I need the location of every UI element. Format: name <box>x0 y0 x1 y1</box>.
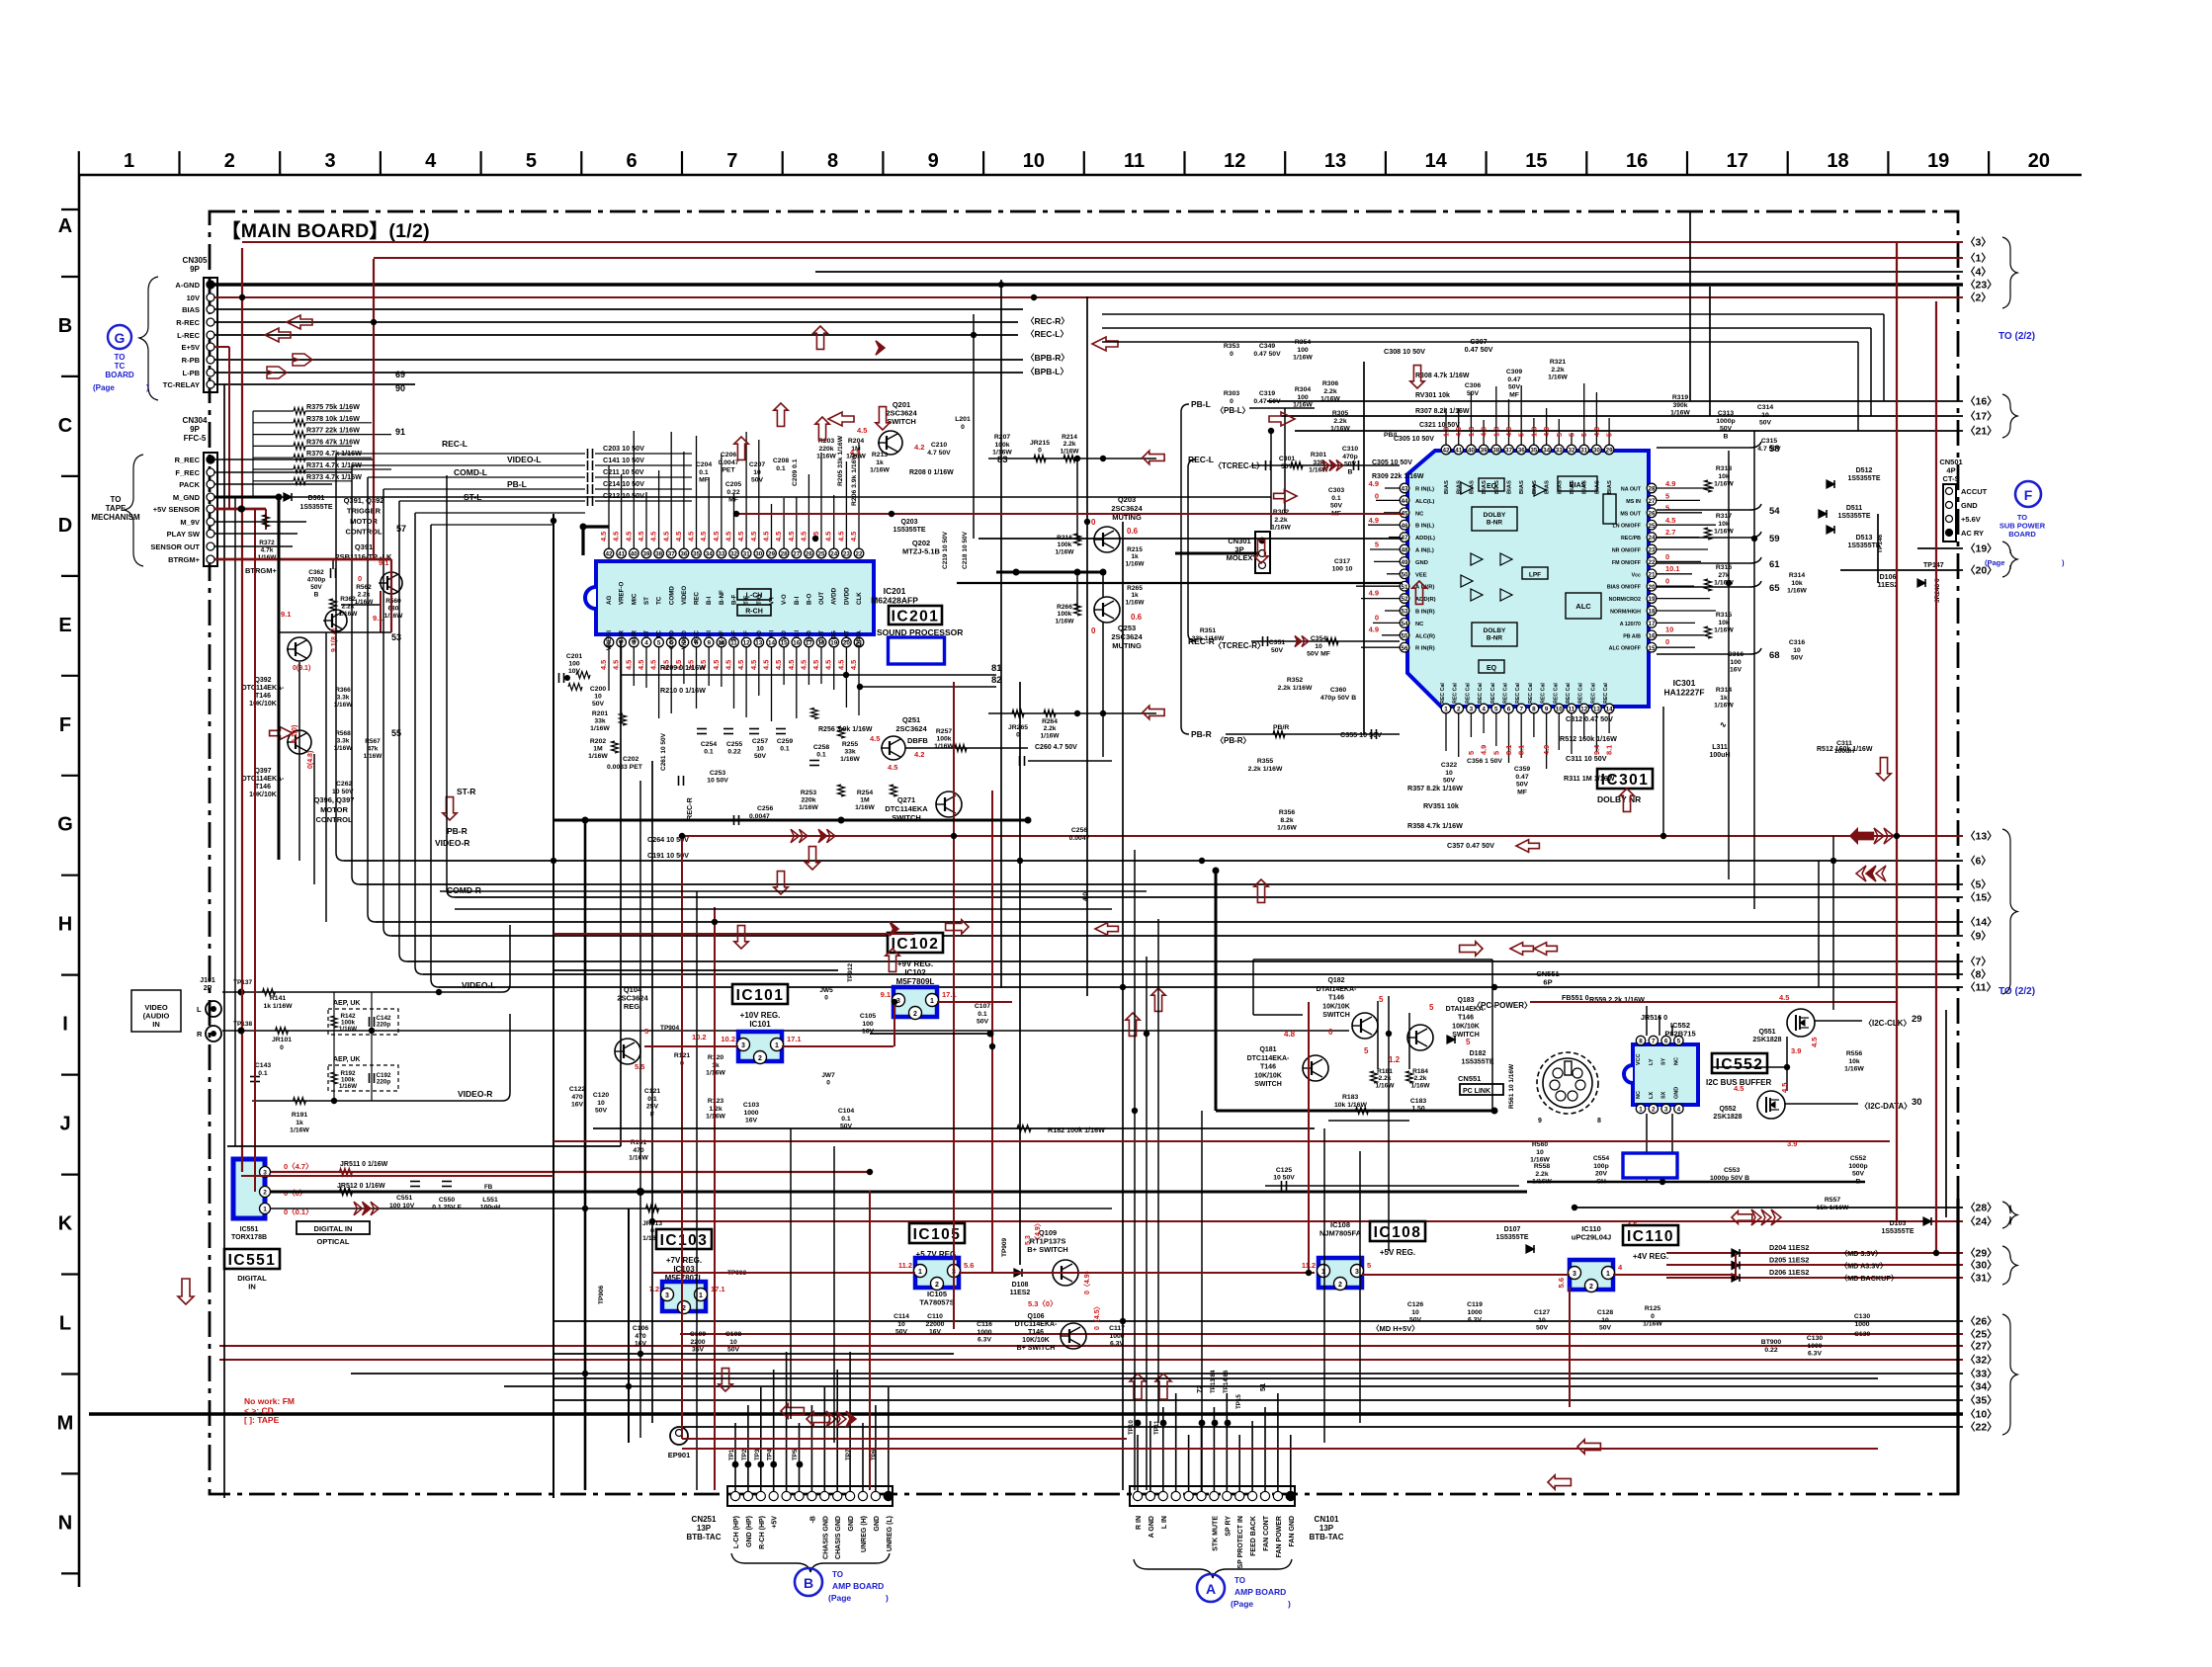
svg-text:2SC3624: 2SC3624 <box>1111 504 1143 513</box>
svg-text:0.22: 0.22 <box>727 749 740 756</box>
svg-text:〈32〉: 〈32〉 <box>1965 1354 1998 1367</box>
svg-text:4.7 50V: 4.7 50V <box>1757 446 1781 453</box>
svg-text:〈REC-L〉: 〈REC-L〉 <box>1026 329 1068 339</box>
svg-text:C260 4.7 50V: C260 4.7 50V <box>1035 744 1077 751</box>
svg-text:1/16W: 1/16W <box>590 725 610 732</box>
svg-text:50V: 50V <box>1720 426 1733 433</box>
svg-text:7: 7 <box>726 150 737 172</box>
svg-text:L: L <box>59 1313 71 1335</box>
svg-text:B-I: B-I <box>706 596 713 605</box>
svg-text:JR265: JR265 <box>1008 724 1028 731</box>
svg-text:5: 5 <box>1677 1039 1681 1045</box>
svg-text:4.5: 4.5 <box>749 532 758 542</box>
svg-text:4.9: 4.9 <box>1542 745 1551 755</box>
svg-text:C120: C120 <box>593 1092 609 1099</box>
svg-text:57: 57 <box>396 524 406 534</box>
svg-text:IC103: IC103 <box>660 1232 709 1249</box>
svg-text:R209 0 1/16W: R209 0 1/16W <box>660 663 706 672</box>
svg-text:R: R <box>197 1030 203 1039</box>
svg-text:38: 38 <box>655 551 663 558</box>
svg-text:90: 90 <box>395 383 405 393</box>
svg-text:100uH: 100uH <box>1709 752 1730 759</box>
svg-text:0: 0 <box>280 1044 284 1051</box>
svg-text:0: 0 <box>826 1080 830 1087</box>
svg-text:2.2k: 2.2k <box>1414 1075 1427 1082</box>
svg-text:〈5〉: 〈5〉 <box>1965 878 1992 891</box>
svg-text:0.1: 0.1 <box>699 469 709 476</box>
svg-text:0.22: 0.22 <box>1764 1347 1777 1354</box>
svg-text:16V: 16V <box>745 1118 758 1125</box>
svg-text:0: 0 <box>1375 491 1379 500</box>
svg-text:100: 100 <box>1730 659 1742 666</box>
svg-text:L201: L201 <box>955 416 971 423</box>
svg-text:DOLBY: DOLBY <box>1484 512 1506 519</box>
svg-text:T146: T146 <box>255 693 271 700</box>
svg-text:C202: C202 <box>623 756 638 763</box>
svg-text:0.1: 0.1 <box>841 1116 851 1123</box>
svg-text:〈4〉: 〈4〉 <box>1965 266 1992 279</box>
svg-text:4.5: 4.5 <box>1779 993 1789 1002</box>
svg-text:4.5: 4.5 <box>612 532 621 542</box>
svg-text:R120: R120 <box>708 1054 723 1061</box>
svg-text:NA OUT: NA OUT <box>1621 487 1642 493</box>
svg-text:IN: IN <box>248 1283 256 1292</box>
svg-text:FEED BACK: FEED BACK <box>1250 1516 1257 1556</box>
svg-text:0: 0 <box>358 574 362 583</box>
svg-text:10V: 10V <box>187 293 200 302</box>
svg-text:10: 10 <box>756 746 764 753</box>
svg-text:B: B <box>1348 468 1353 475</box>
svg-text:OPTICAL: OPTICAL <box>317 1237 350 1246</box>
svg-text:〈33〉: 〈33〉 <box>1965 1368 1998 1380</box>
svg-text:2.2k 1/16W: 2.2k 1/16W <box>1278 685 1313 692</box>
svg-text:TO (2/2): TO (2/2) <box>1999 331 2035 342</box>
svg-text:32: 32 <box>1568 448 1575 455</box>
svg-text:R-REC: R-REC <box>176 318 200 327</box>
svg-text:D512: D512 <box>1856 467 1873 474</box>
svg-text:4.5: 4.5 <box>649 660 658 670</box>
svg-text:GND: GND <box>1415 560 1428 566</box>
svg-text:11ES2: 11ES2 <box>1010 1290 1031 1296</box>
svg-text:+10V REG.: +10V REG. <box>740 1011 781 1020</box>
svg-text:C354: C354 <box>1311 635 1326 642</box>
svg-text:33k: 33k <box>594 718 606 725</box>
svg-text:17.1: 17.1 <box>787 1035 802 1043</box>
svg-text:4.5: 4.5 <box>674 532 683 542</box>
svg-text:C301: C301 <box>1279 456 1295 462</box>
svg-text:ALC(L): ALC(L) <box>1415 499 1434 505</box>
svg-text:〈PB-L〉: 〈PB-L〉 <box>1216 405 1250 415</box>
svg-text:R IN(L): R IN(L) <box>1415 487 1434 493</box>
svg-text:C313: C313 <box>1718 410 1734 417</box>
svg-text:1/16W: 1/16W <box>629 1155 648 1162</box>
svg-text:〈13〉: 〈13〉 <box>1965 830 1998 843</box>
svg-text:13: 13 <box>1324 150 1346 172</box>
svg-text:2.2k: 2.2k <box>1044 725 1057 732</box>
svg-text:R316: R316 <box>1716 564 1732 571</box>
svg-text:51: 51 <box>1401 584 1408 591</box>
svg-text:M62428AFP: M62428AFP <box>871 596 918 606</box>
svg-text:IC301: IC301 <box>1673 678 1696 688</box>
svg-text:JR101: JR101 <box>272 1037 292 1043</box>
svg-text:GND (HP): GND (HP) <box>746 1516 753 1547</box>
svg-text:1: 1 <box>1639 1107 1643 1114</box>
svg-text:R141: R141 <box>270 995 286 1002</box>
svg-text:61: 61 <box>1769 559 1780 570</box>
svg-text:1k: 1k <box>1131 592 1139 599</box>
svg-text:C258: C258 <box>813 744 829 751</box>
svg-text:41: 41 <box>618 551 626 558</box>
svg-text:1k: 1k <box>712 1062 720 1069</box>
svg-text:22: 22 <box>1648 559 1656 566</box>
svg-text:1/16W: 1/16W <box>1330 426 1350 433</box>
svg-text:AC RY: AC RY <box>1961 529 1984 538</box>
svg-text:B+ SWITCH: B+ SWITCH <box>1017 1345 1056 1352</box>
svg-text:50V: 50V <box>1536 1325 1549 1332</box>
svg-text:2SC3624: 2SC3624 <box>895 724 927 733</box>
svg-text:12: 12 <box>743 640 751 647</box>
svg-text:2: 2 <box>913 1011 917 1018</box>
svg-text:10: 10 <box>594 694 602 701</box>
svg-text:R308 4.7k 1/16W: R308 4.7k 1/16W <box>1415 373 1470 379</box>
svg-text:0.1: 0.1 <box>1331 495 1341 502</box>
svg-text:0.0047: 0.0047 <box>719 459 739 466</box>
svg-text:1k: 1k <box>296 1120 303 1126</box>
svg-text:VCC: VCC <box>1636 1053 1642 1065</box>
svg-text:DIGITAL IN: DIGITAL IN <box>314 1224 353 1233</box>
svg-text:91: 91 <box>395 427 405 437</box>
svg-text:E+5V: E+5V <box>181 343 200 352</box>
svg-text:D513: D513 <box>1856 535 1873 542</box>
svg-text:44: 44 <box>1401 498 1408 505</box>
svg-text:R205 33k 1/16W: R205 33k 1/16W <box>837 435 844 486</box>
svg-text:4.5: 4.5 <box>888 763 897 772</box>
svg-text:TO: TO <box>832 1570 843 1579</box>
svg-text:BIAS: BIAS <box>1545 480 1551 494</box>
svg-text:REC-R: REC-R <box>685 796 694 820</box>
svg-text:50V: 50V <box>751 477 764 484</box>
svg-text:T146: T146 <box>255 784 271 791</box>
svg-text:10: 10 <box>1761 412 1769 419</box>
svg-text:3: 3 <box>665 1292 669 1299</box>
svg-text:TORX178B: TORX178B <box>231 1234 267 1241</box>
svg-text:27: 27 <box>793 551 801 558</box>
svg-text:10k: 10k <box>1718 620 1730 626</box>
svg-text:COMD: COMD <box>668 630 675 649</box>
svg-text:+4V REG.: +4V REG. <box>1633 1252 1668 1261</box>
svg-text:ALC: ALC <box>1575 602 1591 611</box>
svg-text:Q551: Q551 <box>1758 1029 1775 1036</box>
svg-text:28: 28 <box>781 551 789 558</box>
svg-text:CHASIS GND: CHASIS GND <box>835 1516 842 1559</box>
svg-text:4.5: 4.5 <box>787 532 796 542</box>
svg-text:〈23〉: 〈23〉 <box>1965 279 1998 292</box>
svg-text:50V: 50V <box>1508 384 1521 391</box>
svg-text:1: 1 <box>930 998 934 1005</box>
svg-text:VIDEO-L: VIDEO-L <box>507 455 541 464</box>
svg-text:1/16W: 1/16W <box>1643 1321 1662 1328</box>
svg-text:IC102: IC102 <box>904 968 926 977</box>
svg-text:16: 16 <box>793 640 801 647</box>
svg-text:< >: CD: < >: CD <box>244 1406 274 1416</box>
svg-text:TO: TO <box>115 353 126 362</box>
svg-text:SP PROTECT IN: SP PROTECT IN <box>1237 1516 1244 1569</box>
svg-text:LN ON/OFF: LN ON/OFF <box>1612 524 1641 530</box>
svg-text:R125: R125 <box>1645 1305 1660 1312</box>
svg-text:TO (2/2): TO (2/2) <box>1999 986 2035 997</box>
svg-text:50V: 50V <box>592 701 605 708</box>
svg-text:AG: AG <box>606 596 613 605</box>
svg-text:30: 30 <box>1912 1097 1922 1108</box>
svg-text:C200: C200 <box>590 686 606 693</box>
svg-text:PB-R: PB-R <box>447 826 468 836</box>
svg-text:〈4.9〉: 〈4.9〉 <box>1034 1219 1042 1243</box>
svg-text:9P: 9P <box>190 265 200 274</box>
svg-text:3: 3 <box>324 150 335 172</box>
svg-text:IC101: IC101 <box>736 987 785 1004</box>
svg-text:3.3k: 3.3k <box>337 695 350 702</box>
svg-text:REC Cal: REC Cal <box>1553 683 1559 704</box>
svg-text:D511: D511 <box>1846 505 1862 512</box>
svg-text:53: 53 <box>1401 609 1408 616</box>
svg-text:2.7: 2.7 <box>1665 528 1675 537</box>
svg-text:DTAI14EKA-: DTAI14EKA- <box>1317 986 1357 993</box>
svg-text:R373 4.7k 1/16W: R373 4.7k 1/16W <box>306 472 362 481</box>
svg-text:+9V REG.: +9V REG. <box>897 959 933 968</box>
svg-text:GND: GND <box>848 1516 855 1532</box>
svg-text:ALC ON/OFF: ALC ON/OFF <box>1609 646 1642 652</box>
svg-text:T146: T146 <box>1458 1015 1474 1022</box>
svg-text:REC-L: REC-L <box>1188 455 1214 464</box>
svg-text:1/16W: 1/16W <box>1714 481 1734 488</box>
svg-text:1000: 1000 <box>1807 1343 1822 1350</box>
svg-text:SWITCH: SWITCH <box>887 417 916 426</box>
svg-text:BIAS: BIAS <box>1607 480 1613 494</box>
svg-text:C317: C317 <box>1334 558 1350 565</box>
svg-text:6: 6 <box>1664 1039 1668 1045</box>
svg-text:4.8: 4.8 <box>1284 1030 1296 1039</box>
svg-text:11: 11 <box>1569 707 1575 713</box>
svg-text:10.2: 10.2 <box>692 1033 707 1042</box>
svg-text:R-CH: R-CH <box>745 609 763 616</box>
svg-text:1000p: 1000p <box>1716 418 1735 425</box>
svg-text:1/16W: 1/16W <box>1293 355 1313 362</box>
svg-text:R309 22k 1/16W: R309 22k 1/16W <box>1372 473 1424 480</box>
svg-text:27: 27 <box>1648 498 1656 505</box>
svg-text:5: 5 <box>657 640 661 647</box>
svg-text:L-PB: L-PB <box>183 369 201 377</box>
svg-text:Q182: Q182 <box>1327 977 1344 984</box>
svg-text:1S5355TE: 1S5355TE <box>1881 1228 1914 1235</box>
svg-text:1: 1 <box>1606 1271 1610 1278</box>
svg-text:〈25〉: 〈25〉 <box>1965 1328 1998 1341</box>
svg-text:2: 2 <box>935 1282 939 1289</box>
svg-text:4: 4 <box>1482 707 1486 713</box>
svg-text:50V: 50V <box>727 1347 740 1354</box>
svg-text:9: 9 <box>1545 707 1549 713</box>
svg-text:10 50V: 10 50V <box>707 778 728 785</box>
svg-text:2.2k: 2.2k <box>358 592 371 599</box>
svg-text:6.3V: 6.3V <box>1468 1317 1482 1324</box>
svg-text:∿: ∿ <box>1720 720 1727 729</box>
svg-text:K: K <box>58 1213 73 1235</box>
svg-text:C319: C319 <box>1259 390 1275 397</box>
svg-text:1/16W: 1/16W <box>1271 525 1291 532</box>
svg-text:A: A <box>1206 1581 1216 1597</box>
svg-text:R357 8.2k 1/16W: R357 8.2k 1/16W <box>1407 784 1463 792</box>
svg-text:SX: SX <box>1661 1091 1667 1099</box>
svg-text:R321: R321 <box>1550 359 1566 366</box>
svg-text:10: 10 <box>1411 1309 1419 1316</box>
svg-text:R568: R568 <box>335 730 351 737</box>
svg-text:MF: MF <box>1509 391 1519 398</box>
svg-text:50V: 50V <box>310 584 322 591</box>
svg-text:46: 46 <box>1401 523 1408 530</box>
svg-text:BTB-TAC: BTB-TAC <box>687 1533 722 1542</box>
svg-text:2P: 2P <box>204 985 213 992</box>
svg-text:16V: 16V <box>929 1329 942 1336</box>
svg-text:100k: 100k <box>1058 542 1072 548</box>
svg-text:100: 100 <box>1297 394 1309 401</box>
svg-text:0: 0 <box>1230 398 1234 405</box>
svg-text:13P: 13P <box>697 1524 712 1533</box>
svg-text:PB-L: PB-L <box>507 479 527 489</box>
svg-text:B IN(L): B IN(L) <box>1415 524 1434 530</box>
svg-text:C308 10 50V: C308 10 50V <box>1384 347 1425 356</box>
svg-text:Q392: Q392 <box>254 677 271 684</box>
svg-text:C306: C306 <box>1465 382 1481 389</box>
svg-text:2: 2 <box>1338 1282 1342 1289</box>
svg-text:1/16W: 1/16W <box>339 1026 357 1033</box>
svg-text:EP901: EP901 <box>668 1451 691 1459</box>
svg-text:C128: C128 <box>1597 1309 1613 1316</box>
svg-text:EQ: EQ <box>1487 665 1497 672</box>
svg-text:4.9: 4.9 <box>1665 479 1675 488</box>
svg-text:CLK: CLK <box>856 592 863 605</box>
svg-text:〈BPB-R〉: 〈BPB-R〉 <box>1026 353 1069 363</box>
svg-text:42: 42 <box>605 551 613 558</box>
svg-text:1k: 1k <box>1720 695 1728 702</box>
svg-text:COMD-R: COMD-R <box>447 885 481 895</box>
svg-text:C303: C303 <box>1328 487 1344 494</box>
svg-text:47k: 47k <box>368 746 379 753</box>
svg-text:4.9: 4.9 <box>1369 589 1379 598</box>
svg-text:R376 47k 1/16W: R376 47k 1/16W <box>306 437 360 446</box>
svg-text:R356: R356 <box>1279 809 1295 816</box>
svg-text:R-CH (HP): R-CH (HP) <box>759 1516 766 1549</box>
svg-text:0〈4.9〉: 0〈4.9〉 <box>1083 1267 1091 1294</box>
svg-text:1.2: 1.2 <box>1389 1055 1401 1064</box>
svg-text:2: 2 <box>758 1055 762 1062</box>
svg-text:2SK1828: 2SK1828 <box>1713 1114 1742 1121</box>
svg-text:4.5: 4.5 <box>1665 516 1675 525</box>
svg-text:4.5: 4.5 <box>836 532 845 542</box>
svg-text:4.5: 4.5 <box>774 660 783 670</box>
svg-text:F: F <box>2024 487 2033 503</box>
svg-text:C314: C314 <box>1757 404 1773 411</box>
svg-text:20: 20 <box>2028 150 2050 172</box>
svg-text:REC-R: REC-R <box>1188 636 1215 646</box>
svg-text:50V: 50V <box>1330 503 1343 510</box>
svg-text:220k: 220k <box>818 446 833 453</box>
svg-text:0(4.8): 0(4.8) <box>307 751 314 769</box>
svg-text:0.47 50V: 0.47 50V <box>1253 398 1281 405</box>
svg-text:R IN(R): R IN(R) <box>1415 646 1435 652</box>
svg-text:V-I: V-I <box>768 597 775 605</box>
svg-text:R191: R191 <box>292 1112 307 1119</box>
svg-text:10K/10K: 10K/10K <box>1022 1337 1050 1344</box>
svg-text:5: 5 <box>644 1027 648 1036</box>
svg-text:NORM/CRO2: NORM/CRO2 <box>1609 597 1641 603</box>
svg-text:C554: C554 <box>1593 1155 1609 1162</box>
svg-text:1M: 1M <box>860 797 870 804</box>
svg-text:59: 59 <box>1769 534 1780 544</box>
svg-text:C210: C210 <box>931 442 947 449</box>
svg-text:JW7: JW7 <box>821 1072 835 1079</box>
svg-text:R214: R214 <box>1062 434 1077 441</box>
svg-text:NORM/HIGH: NORM/HIGH <box>1610 610 1641 616</box>
svg-text:4.5: 4.5 <box>637 660 645 670</box>
svg-text:50V: 50V <box>895 1329 908 1336</box>
svg-text:D108: D108 <box>1012 1282 1029 1289</box>
svg-text:R208 0 1/16W: R208 0 1/16W <box>909 469 954 476</box>
svg-text:Q552: Q552 <box>1719 1106 1736 1113</box>
svg-text:4.9: 4.9 <box>1542 427 1551 437</box>
svg-text:TC-RELAY: TC-RELAY <box>163 380 200 389</box>
svg-text:A: A <box>58 215 72 237</box>
svg-text:MTZJ-5.1B: MTZJ-5.1B <box>902 547 941 556</box>
svg-text:G: G <box>57 814 73 836</box>
svg-text:C552: C552 <box>1850 1155 1866 1162</box>
svg-text:C130: C130 <box>1807 1335 1823 1342</box>
svg-text:16: 16 <box>1648 632 1656 639</box>
svg-text:SP RY: SP RY <box>1225 1516 1232 1537</box>
svg-text:0〈4.5〉: 0〈4.5〉 <box>1093 1302 1101 1330</box>
svg-text:4.5: 4.5 <box>787 660 796 670</box>
svg-text:〈7〉: 〈7〉 <box>1965 956 1992 968</box>
svg-text:0.47 50V: 0.47 50V <box>1465 345 1493 354</box>
svg-text:1/16W: 1/16W <box>1277 825 1297 832</box>
svg-text:4.5: 4.5 <box>699 532 708 542</box>
svg-text:〈1〉: 〈1〉 <box>1965 252 1992 265</box>
svg-text:C207: C207 <box>749 461 765 468</box>
svg-text:1S5355TE: 1S5355TE <box>1461 1059 1493 1066</box>
svg-text:R375 75k 1/16W: R375 75k 1/16W <box>306 402 360 411</box>
svg-text:Vcc: Vcc <box>1632 572 1641 578</box>
svg-text:IC110: IC110 <box>1627 1228 1674 1245</box>
svg-text:22: 22 <box>855 551 863 558</box>
svg-text:FAN GND: FAN GND <box>1289 1516 1296 1547</box>
svg-text:32: 32 <box>730 551 738 558</box>
svg-text:〈9〉: 〈9〉 <box>1965 930 1992 943</box>
svg-text:35: 35 <box>1530 448 1538 455</box>
svg-text:TC: TC <box>115 362 126 371</box>
svg-text:CHASIS GND: CHASIS GND <box>822 1516 829 1559</box>
svg-text:C208: C208 <box>773 458 789 464</box>
svg-text:3: 3 <box>1573 1271 1576 1278</box>
svg-text:50: 50 <box>1401 571 1408 578</box>
svg-text:10: 10 <box>1536 1149 1544 1156</box>
svg-text:REG.: REG. <box>624 1002 641 1011</box>
svg-text:MIC: MIC <box>631 593 638 605</box>
svg-text:2SK1828: 2SK1828 <box>1752 1037 1781 1043</box>
svg-text:10.2: 10.2 <box>721 1035 735 1043</box>
svg-text:VREF-O: VREF-O <box>619 581 626 605</box>
svg-text:FAN POWER: FAN POWER <box>1276 1516 1283 1557</box>
svg-text:〈24〉: 〈24〉 <box>1965 1215 1998 1228</box>
svg-text:REC Cal: REC Cal <box>1566 683 1572 704</box>
svg-text:2.2k: 2.2k <box>1063 441 1076 448</box>
